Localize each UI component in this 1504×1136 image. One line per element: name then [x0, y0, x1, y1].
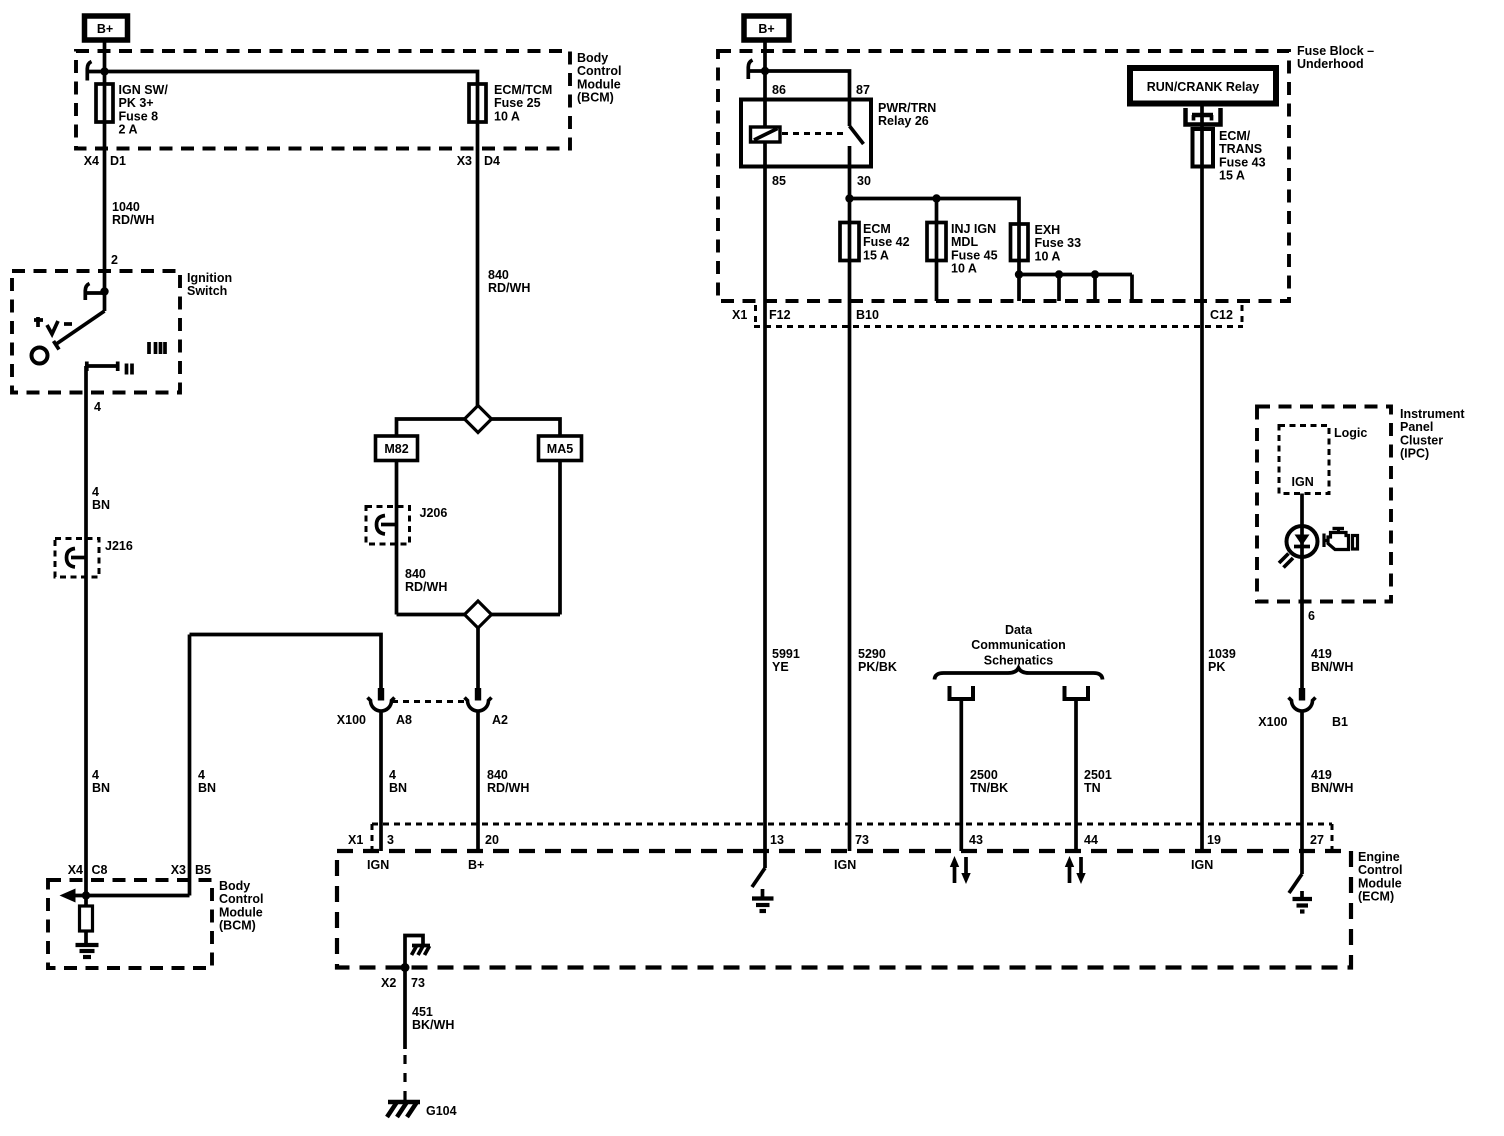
svg-text:B+: B+	[758, 22, 774, 36]
wire 85 down through F12	[763, 167, 767, 852]
wire loop bottom right	[492, 613, 561, 617]
svg-text:RUN/CRANK Relay: RUN/CRANK Relay	[1147, 80, 1260, 94]
LED indicator (MIL)	[1279, 526, 1318, 568]
svg-text:Body: Body	[577, 51, 608, 65]
label 5991 YE	[772, 647, 800, 674]
svg-text:IGN: IGN	[1191, 858, 1213, 872]
fuse F43 ECM/TRANS Fuse 43 15A	[1193, 129, 1214, 167]
svg-text:19: 19	[1207, 833, 1221, 847]
Ignition Switch dashed box	[12, 271, 180, 393]
clip symbol at B+ feed (left)	[87, 62, 104, 81]
node: B+ junction (left)	[100, 67, 108, 75]
svg-text:13: 13	[770, 833, 784, 847]
ECM connector strip X1 dotted	[372, 824, 1332, 851]
svg-text:Body: Body	[219, 879, 250, 893]
dashed wire to G104	[403, 1055, 406, 1100]
ECM internal chassis ground X2	[405, 936, 430, 968]
power symbol B+ (left)	[85, 16, 128, 40]
label fuse 33	[1035, 223, 1082, 263]
svg-text:ECM/TCM: ECM/TCM	[494, 83, 552, 97]
svg-text:(IPC): (IPC)	[1400, 447, 1429, 461]
wire branch to connector A8	[190, 635, 382, 689]
svg-text:RD/WH: RD/WH	[112, 213, 154, 227]
svg-text:BN/WH: BN/WH	[1311, 660, 1353, 674]
Fuse Block Underhood dashed box	[718, 51, 1289, 301]
svg-text:10 A: 10 A	[951, 262, 977, 276]
label Fuse Block Underhood	[1297, 44, 1374, 71]
svg-text:840: 840	[488, 268, 509, 282]
label Body Control Module (BCM) bottom	[219, 879, 263, 933]
wire to ECM/TCM fuse	[105, 72, 478, 85]
label 419 BN/WH (upper)	[1311, 647, 1353, 674]
svg-text:5991: 5991	[772, 647, 800, 661]
svg-text:BK/WH: BK/WH	[412, 1018, 454, 1032]
svg-text:Fuse 43: Fuse 43	[1219, 155, 1266, 169]
clip symbol at B+ feed (right)	[748, 60, 765, 79]
svg-text:2: 2	[111, 253, 118, 267]
svg-text:A2: A2	[492, 713, 508, 727]
label 5290 PK/BK	[858, 647, 897, 674]
svg-text:A8: A8	[396, 713, 412, 727]
ECM pin function labels	[367, 858, 1213, 872]
labels pins 86 87	[772, 83, 870, 97]
labels X2 73	[381, 976, 425, 990]
svg-text:D1: D1	[110, 154, 126, 168]
connector strip X1 under fuse block	[754, 305, 1243, 327]
clip symbol at ignition switch input	[85, 284, 104, 301]
dashed connector tie A8-A2	[392, 700, 467, 703]
node: BCM internal junction	[82, 891, 90, 899]
relay coil	[751, 100, 781, 167]
label Ignition Switch	[187, 271, 232, 298]
svg-text:15 A: 15 A	[863, 248, 889, 262]
label 4 BN (lower left)	[92, 768, 110, 795]
svg-text:30: 30	[857, 174, 871, 188]
svg-text:840: 840	[487, 768, 508, 782]
node: fuse bus junction 2	[932, 194, 940, 202]
svg-text:J206: J206	[420, 506, 448, 520]
pin labels X4 D1	[84, 154, 126, 168]
svg-text:PK: PK	[1208, 660, 1225, 674]
node: ignition switch input junction	[100, 287, 108, 295]
svg-text:Module: Module	[577, 77, 621, 91]
svg-text:PWR/TRN: PWR/TRN	[878, 101, 936, 115]
svg-text:TRANS: TRANS	[1219, 142, 1262, 156]
svg-text:IGN: IGN	[834, 858, 856, 872]
wire 4 BN ignition switch to BCM C8	[84, 366, 88, 906]
ignition switch position marks (right)	[149, 342, 165, 354]
svg-text:Control: Control	[219, 892, 263, 906]
svg-text:J216: J216	[105, 539, 133, 553]
svg-text:27: 27	[1310, 833, 1324, 847]
svg-text:20: 20	[485, 833, 499, 847]
splice J216	[55, 539, 99, 578]
svg-text:Control: Control	[577, 64, 621, 78]
connector X100 B1	[1289, 688, 1316, 711]
labels X1 F12 B10 C12	[732, 308, 1233, 322]
svg-text:BN/WH: BN/WH	[1311, 781, 1353, 795]
svg-text:Ignition: Ignition	[187, 271, 232, 285]
fuse F8 IGN SW/PK 3+ Fuse 8 2A	[96, 84, 113, 122]
svg-text:RD/WH: RD/WH	[488, 281, 530, 295]
svg-text:Underhood: Underhood	[1297, 57, 1364, 71]
svg-text:Instrument: Instrument	[1400, 407, 1465, 421]
data link socket pin 44	[1065, 686, 1089, 699]
splice J206	[366, 507, 410, 545]
labels X100 B1	[1258, 715, 1348, 729]
ignition switch output contact	[86, 362, 132, 375]
svg-text:10 A: 10 A	[494, 109, 520, 123]
wire M82 down	[395, 461, 399, 615]
node: bottom diamond junction	[465, 601, 492, 628]
node: bus dots	[1015, 270, 1099, 278]
data link socket pin 43	[950, 686, 974, 699]
ECM pin 27 internal switch to ground	[1289, 851, 1312, 912]
svg-text:4: 4	[94, 400, 101, 414]
svg-text:B+: B+	[468, 858, 484, 872]
wire B+ down to relay pin 86	[763, 40, 767, 100]
relay actuation dashed link	[782, 132, 847, 135]
label 419 BN/WH (lower)	[1311, 768, 1353, 795]
pin labels X4 C8	[68, 863, 108, 877]
svg-text:Communication: Communication	[971, 638, 1065, 652]
svg-text:Relay 26: Relay 26	[878, 114, 929, 128]
wire MA5 down	[558, 461, 562, 615]
svg-text:Data: Data	[1005, 623, 1033, 637]
node: top diamond junction	[465, 406, 492, 433]
svg-text:X1: X1	[732, 308, 747, 322]
svg-text:Fuse 42: Fuse 42	[863, 235, 910, 249]
svg-text:(BCM): (BCM)	[577, 91, 614, 105]
Engine Control Module (ECM) dashed box	[337, 851, 1351, 968]
label 840 RD/WH (upper)	[488, 268, 530, 295]
ground in BCM	[76, 945, 99, 957]
svg-text:Panel: Panel	[1400, 420, 1433, 434]
brace over data link connectors	[935, 668, 1103, 680]
resistor in BCM	[80, 906, 93, 931]
ignition switch position marks (left)	[34, 317, 72, 334]
wire loop bottom left	[397, 613, 465, 617]
svg-text:EXH: EXH	[1035, 223, 1061, 237]
label 840 RD/WH (loop)	[405, 567, 447, 594]
svg-text:4: 4	[198, 768, 205, 782]
svg-text:X100: X100	[337, 713, 366, 727]
relay socket terminal	[1186, 104, 1221, 130]
svg-text:5290: 5290	[858, 647, 886, 661]
svg-text:1040: 1040	[112, 200, 140, 214]
labels pins 85 30	[772, 174, 871, 188]
svg-text:Fuse 45: Fuse 45	[951, 248, 998, 262]
svg-text:C12: C12	[1210, 308, 1233, 322]
wire 30 down to fuse bus	[848, 167, 852, 223]
svg-text:3: 3	[387, 833, 394, 847]
svg-text:X3: X3	[457, 154, 472, 168]
svg-text:87: 87	[856, 83, 870, 97]
fuse F33 EXH Fuse 33 10A	[1011, 224, 1029, 261]
RUN/CRANK Relay label box	[1130, 68, 1276, 104]
svg-text:PK 3+: PK 3+	[119, 96, 154, 110]
connector M82	[376, 436, 418, 461]
svg-text:43: 43	[969, 833, 983, 847]
svg-text:IGN: IGN	[1292, 475, 1314, 489]
label fuse 42	[863, 222, 910, 262]
connector X100 A2	[465, 688, 492, 711]
svg-text:BN: BN	[198, 781, 216, 795]
svg-text:73: 73	[855, 833, 869, 847]
svg-text:451: 451	[412, 1005, 433, 1019]
svg-text:D4: D4	[484, 154, 500, 168]
svg-text:2501: 2501	[1084, 768, 1112, 782]
label Instrument Panel Cluster (IPC)	[1400, 407, 1465, 461]
pin labels X3 D4	[457, 154, 500, 168]
wire 1040 RD/WH from fuse 8 to ignition switch	[103, 122, 107, 311]
svg-text:Control: Control	[1358, 863, 1402, 877]
wire 2501 TN to ECM pin 44	[1074, 699, 1078, 851]
svg-text:85: 85	[772, 174, 786, 188]
svg-text:PK/BK: PK/BK	[858, 660, 897, 674]
svg-text:86: 86	[772, 83, 786, 97]
svg-text:X4: X4	[68, 863, 83, 877]
relay switch contact	[850, 100, 864, 167]
node: pin X2-73 junction	[401, 963, 410, 972]
label 4 BN (branch)	[198, 768, 216, 795]
wire fuse 43 to ECM pin 19	[1200, 167, 1204, 852]
fuse F25 ECM/TCM Fuse 25 10A	[469, 84, 486, 122]
svg-text:Engine: Engine	[1358, 850, 1400, 864]
Logic dashed box	[1279, 426, 1329, 494]
node: fuse bus junction 1	[845, 194, 853, 202]
label 2501 TN	[1084, 768, 1112, 795]
svg-text:BN: BN	[92, 781, 110, 795]
connector MA5	[539, 436, 582, 461]
wire 840 RD/WH from D4 to diamond	[476, 122, 480, 407]
svg-text:TN: TN	[1084, 781, 1101, 795]
ECM pin 43 bidirectional arrows	[950, 856, 971, 884]
svg-text:(BCM): (BCM)	[219, 919, 256, 933]
wire A2 to ECM pin 20	[476, 711, 480, 852]
Body Control Module (BCM) dashed box (top)	[76, 51, 570, 149]
svg-text:MA5: MA5	[547, 442, 573, 456]
ignition switch rotor circle	[32, 348, 48, 364]
engine icon (check engine)	[1324, 529, 1358, 550]
svg-text:4: 4	[92, 768, 99, 782]
label 4 BN (to pin 3)	[389, 768, 407, 795]
ignition switch blade	[54, 311, 105, 350]
svg-text:B10: B10	[856, 308, 879, 322]
relay K26 PWR/TRN Relay 26 box	[741, 100, 871, 167]
svg-text:IGN: IGN	[367, 858, 389, 872]
svg-text:Module: Module	[1358, 876, 1402, 890]
Body Control Module (BCM) dashed box (bottom)	[48, 880, 212, 968]
svg-text:840: 840	[405, 567, 426, 581]
svg-text:B5: B5	[195, 863, 211, 877]
wire logic to LED and out of IPC	[1300, 494, 1304, 689]
svg-text:Logic: Logic	[1334, 426, 1367, 440]
label Data Communication Schematics	[971, 623, 1065, 667]
svg-text:RD/WH: RD/WH	[405, 580, 447, 594]
svg-text:419: 419	[1311, 647, 1332, 661]
svg-text:B+: B+	[97, 22, 113, 36]
svg-text:X100: X100	[1258, 715, 1287, 729]
ECM pin number labels	[348, 833, 1324, 847]
wire diamond to connector A2	[476, 628, 480, 689]
svg-text:ECM: ECM	[863, 222, 891, 236]
svg-text:44: 44	[1084, 833, 1098, 847]
svg-text:YE: YE	[772, 660, 789, 674]
svg-text:BN: BN	[92, 498, 110, 512]
label Body Control Module (BCM)	[577, 51, 621, 105]
label fuse 25	[494, 83, 552, 123]
svg-text:4: 4	[92, 485, 99, 499]
label 840 RD/WH (to pin 20)	[487, 768, 529, 795]
label fuse 45	[951, 222, 998, 276]
label 2500 TN/BK	[970, 768, 1008, 795]
pin labels X3 B5	[171, 863, 211, 877]
label 451 BK/WH	[412, 1005, 454, 1032]
wire to relay pin 87	[765, 71, 850, 100]
wire diamond to M82	[397, 419, 465, 436]
svg-text:X3: X3	[171, 863, 186, 877]
svg-text:2 A: 2 A	[119, 123, 138, 137]
svg-text:Cluster: Cluster	[1400, 433, 1443, 447]
label PWR/TRN Relay 26	[878, 101, 936, 128]
connector X100 A8	[368, 688, 395, 711]
svg-text:73: 73	[411, 976, 425, 990]
wire fuse 33 output bus	[1019, 261, 1132, 302]
svg-text:TN/BK: TN/BK	[970, 781, 1008, 795]
wire fuse 42 to ECM pin 73	[848, 261, 852, 852]
wire 451 BK/WH	[403, 968, 407, 1050]
wire resistor to ground	[84, 931, 88, 944]
svg-text:Fuse 25: Fuse 25	[494, 96, 541, 110]
svg-text:Switch: Switch	[187, 284, 227, 298]
ECM pin 44 bidirectional arrows	[1065, 856, 1086, 884]
fuse F42 ECM Fuse 42 15A	[840, 199, 937, 261]
svg-text:2500: 2500	[970, 768, 998, 782]
chassis ground G104	[387, 1102, 420, 1117]
svg-text:M82: M82	[384, 442, 408, 456]
svg-text:IGN SW/: IGN SW/	[119, 83, 169, 97]
wire B1 to ECM pin 27	[1300, 711, 1304, 852]
svg-text:10 A: 10 A	[1035, 249, 1061, 263]
svg-text:6: 6	[1308, 609, 1315, 623]
ECM pin 13 internal switch to ground	[752, 851, 774, 911]
svg-text:X2: X2	[381, 976, 396, 990]
wire 2500 TN/BK to ECM pin 43	[959, 699, 963, 851]
svg-text:F12: F12	[769, 308, 791, 322]
label Engine Control Module (ECM)	[1358, 850, 1402, 904]
node: B+ junction (right)	[761, 67, 769, 75]
label fuse 8	[119, 83, 169, 137]
svg-text:B1: B1	[1332, 715, 1348, 729]
svg-text:Fuse Block –: Fuse Block –	[1297, 44, 1374, 58]
wire fuse bus	[850, 199, 1020, 225]
labels X100 A8 A2	[337, 713, 508, 727]
Instrument Panel Cluster (IPC) dashed box	[1257, 407, 1391, 602]
label fuse 43	[1219, 129, 1266, 183]
svg-text:G104: G104	[426, 1104, 457, 1118]
label 1040 RD/WH	[112, 200, 154, 227]
svg-text:X1: X1	[348, 833, 363, 847]
wire 4 BN branch B5 into BCM with arrow	[60, 635, 190, 903]
wire B+ down into BCM	[103, 40, 107, 84]
label 4 BN (upper)	[92, 485, 110, 512]
svg-text:Module: Module	[219, 905, 263, 919]
svg-text:X4: X4	[84, 154, 99, 168]
svg-text:MDL: MDL	[951, 235, 978, 249]
svg-text:4: 4	[389, 768, 396, 782]
wire diamond to MA5	[492, 419, 561, 436]
svg-text:C8: C8	[92, 863, 108, 877]
svg-text:BN: BN	[389, 781, 407, 795]
power symbol B+ (right)	[744, 16, 789, 40]
wire A8 to ECM pin 3	[379, 711, 383, 852]
svg-text:Fuse 33: Fuse 33	[1035, 236, 1082, 250]
svg-text:(ECM): (ECM)	[1358, 890, 1394, 904]
svg-text:1039: 1039	[1208, 647, 1236, 661]
svg-text:Fuse 8: Fuse 8	[119, 109, 159, 123]
svg-text:15 A: 15 A	[1219, 169, 1245, 183]
svg-text:RD/WH: RD/WH	[487, 781, 529, 795]
svg-text:ECM/: ECM/	[1219, 129, 1251, 143]
svg-text:419: 419	[1311, 768, 1332, 782]
svg-text:INJ IGN: INJ IGN	[951, 222, 996, 236]
label 1039 PK	[1208, 647, 1236, 674]
fuse F45 INJ IGN MDL Fuse 45 10A	[927, 223, 946, 302]
